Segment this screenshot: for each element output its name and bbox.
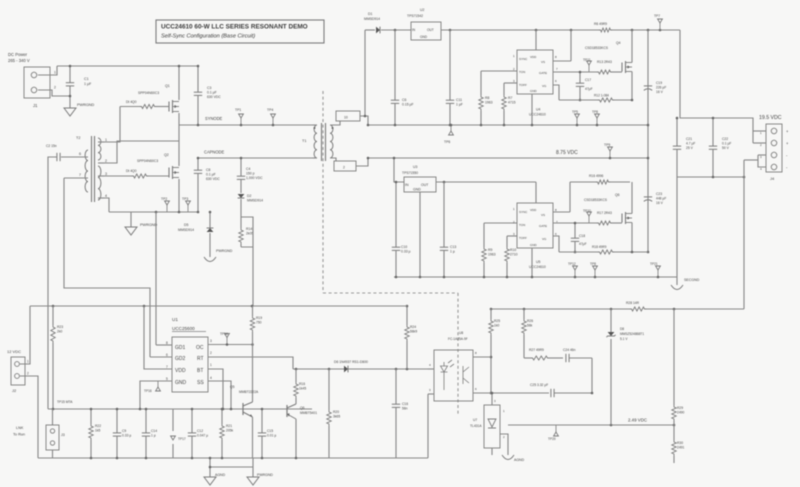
svg-text:TPS71542: TPS71542 bbox=[407, 14, 423, 18]
wire bbox=[295, 398, 297, 404]
junction bbox=[230, 408, 233, 411]
wire bbox=[98, 175, 104, 177]
wire bbox=[104, 175, 132, 177]
wire VS riser lower bbox=[569, 182, 571, 212]
wire Q6 drain bbox=[631, 182, 633, 214]
junction bbox=[197, 211, 200, 214]
wire bbox=[240, 217, 242, 228]
junction bbox=[240, 124, 243, 127]
svg-text:SECGND: SECGND bbox=[684, 278, 700, 282]
svg-text:VG: VG bbox=[542, 84, 547, 88]
svg-text:R16: R16 bbox=[299, 382, 305, 386]
wire bbox=[313, 157, 317, 159]
svg-text:U8: U8 bbox=[459, 331, 463, 335]
svg-text:C15: C15 bbox=[267, 429, 273, 433]
junction bbox=[395, 181, 398, 184]
svg-text:J1: J1 bbox=[33, 103, 38, 108]
svg-text:R28 14R: R28 14R bbox=[626, 301, 640, 305]
wire bbox=[610, 181, 630, 183]
wire Q1 drain bbox=[178, 66, 180, 100]
svg-text:TP15 MTA: TP15 MTA bbox=[57, 400, 73, 404]
svg-text:448 µF: 448 µF bbox=[656, 197, 666, 201]
svg-text:150 p: 150 p bbox=[246, 172, 255, 176]
connector pin bbox=[771, 140, 777, 146]
wire Q2 drain from SYNODE bbox=[178, 125, 180, 166]
svg-text:16 V: 16 V bbox=[656, 90, 664, 94]
svg-text:Q4: Q4 bbox=[616, 41, 621, 45]
svg-text:GATE: GATE bbox=[539, 224, 547, 228]
svg-text:U3: U3 bbox=[413, 165, 417, 169]
wire J2 to 12V rail bbox=[20, 306, 30, 364]
svg-text:GND: GND bbox=[420, 35, 428, 39]
svg-text:TL431A: TL431A bbox=[470, 424, 482, 428]
wire bbox=[197, 174, 199, 213]
junction bbox=[406, 305, 409, 308]
wire Q4 source bbox=[631, 72, 633, 101]
wire bbox=[221, 440, 223, 458]
test point TP10 bbox=[588, 216, 590, 223]
wire bbox=[252, 458, 254, 467]
svg-text:0.01 µ: 0.01 µ bbox=[267, 434, 276, 438]
junction bbox=[139, 408, 142, 411]
svg-text:TOFF: TOFF bbox=[519, 236, 527, 240]
wire bbox=[612, 71, 622, 73]
junction bbox=[178, 211, 181, 214]
svg-text:TPS71550: TPS71550 bbox=[402, 171, 418, 175]
wire bbox=[712, 118, 714, 146]
svg-text:R13 2R43: R13 2R43 bbox=[597, 60, 612, 64]
wire 5V rail lower bbox=[436, 181, 536, 183]
wire bbox=[116, 409, 118, 433]
svg-text:PWRGND: PWRGND bbox=[257, 473, 273, 477]
wire bbox=[491, 392, 549, 394]
junction bbox=[314, 127, 316, 129]
svg-text:D2: D2 bbox=[247, 194, 251, 198]
svg-text:3: 3 bbox=[210, 339, 212, 343]
svg-text:C9: C9 bbox=[122, 429, 126, 433]
svg-text:VDD: VDD bbox=[530, 208, 537, 212]
wire output cap column bbox=[647, 30, 649, 252]
svg-text:GND: GND bbox=[175, 380, 187, 386]
capacitor C23 bbox=[644, 196, 652, 198]
wire bbox=[428, 393, 434, 395]
svg-text:GND: GND bbox=[413, 188, 421, 192]
svg-text:C21: C21 bbox=[686, 137, 692, 141]
svg-text:TP11: TP11 bbox=[583, 58, 591, 62]
wire SS down bbox=[208, 381, 231, 409]
wire U5 GND down bbox=[531, 248, 533, 277]
wire bbox=[612, 222, 622, 224]
wire bbox=[323, 292, 458, 294]
svg-text:SYNC: SYNC bbox=[519, 210, 528, 214]
svg-text:2: 2 bbox=[343, 166, 345, 170]
junction bbox=[490, 356, 493, 359]
wire bbox=[712, 150, 714, 178]
ground PWRGND input bbox=[64, 108, 76, 116]
wire bbox=[360, 116, 368, 125]
svg-text:R20: R20 bbox=[333, 410, 339, 414]
wire bbox=[395, 182, 397, 247]
svg-text:PWRGND: PWRGND bbox=[77, 103, 95, 107]
svg-text:TP16: TP16 bbox=[144, 389, 152, 393]
wire bbox=[243, 402, 253, 406]
junction bbox=[226, 343, 229, 346]
svg-text:IN: IN bbox=[405, 183, 409, 187]
junction bbox=[596, 124, 599, 127]
wire bbox=[443, 182, 445, 247]
svg-text:MMSD914: MMSD914 bbox=[247, 199, 263, 203]
wire bbox=[503, 83, 505, 95]
svg-text:TP12: TP12 bbox=[568, 262, 576, 266]
svg-text:1 µF: 1 µF bbox=[84, 82, 92, 86]
junction bbox=[251, 343, 254, 346]
wire secondary bottom rail 8.75VDC bbox=[368, 157, 648, 159]
diode D1 bbox=[376, 27, 380, 34]
junction bbox=[523, 308, 526, 311]
svg-text:C16: C16 bbox=[402, 402, 408, 406]
wire C2 down to bias rail bbox=[48, 157, 57, 409]
test point TP16 bbox=[157, 381, 159, 387]
svg-text:3: 3 bbox=[105, 172, 107, 176]
wire bbox=[240, 244, 242, 247]
junction bbox=[261, 457, 264, 460]
wire TL431 cathode bbox=[500, 434, 508, 455]
svg-text:SYNC: SYNC bbox=[519, 57, 528, 61]
wire bbox=[98, 141, 104, 143]
wire U4 VDD bbox=[535, 30, 537, 50]
wire bbox=[758, 154, 766, 156]
svg-text:3k65: 3k65 bbox=[333, 415, 340, 419]
svg-text:TP8: TP8 bbox=[592, 110, 598, 114]
resistor R13 bbox=[597, 70, 612, 74]
wire bbox=[313, 124, 317, 126]
wire bbox=[406, 341, 408, 369]
svg-text:AGND: AGND bbox=[514, 458, 525, 462]
svg-text:C14: C14 bbox=[151, 429, 157, 433]
svg-text:1k45: 1k45 bbox=[299, 387, 306, 391]
wire secondary return rail bbox=[394, 276, 677, 278]
junction bbox=[480, 124, 483, 127]
wire Q1 source to SYNODE bbox=[178, 113, 180, 125]
junction bbox=[449, 124, 452, 127]
svg-text:750: 750 bbox=[256, 321, 262, 325]
wire VDD riser bbox=[144, 306, 172, 369]
svg-text:0.33 µ: 0.33 µ bbox=[122, 434, 131, 438]
svg-text:1: 1 bbox=[210, 363, 212, 367]
junction bbox=[221, 408, 224, 411]
junction bbox=[419, 276, 422, 279]
svg-text:8: 8 bbox=[166, 341, 168, 345]
svg-text:Dt 4Q0: Dt 4Q0 bbox=[126, 169, 137, 173]
junction bbox=[222, 408, 225, 411]
svg-text:R8: R8 bbox=[485, 96, 489, 100]
test point TP6 bbox=[450, 125, 452, 131]
ground PWRGND sense bbox=[204, 257, 216, 262]
wire bbox=[252, 332, 254, 345]
wire bias mid rail bbox=[48, 408, 312, 410]
junction bbox=[145, 457, 148, 460]
wire to SECGND bbox=[676, 177, 678, 277]
svg-text:1963: 1963 bbox=[485, 101, 493, 105]
wire bbox=[240, 199, 242, 217]
wire Q4 drain bbox=[631, 30, 633, 63]
wire 6V rail upper bbox=[441, 29, 599, 31]
wire drain rail lower bbox=[570, 181, 596, 183]
wire J4 sense tap bbox=[744, 159, 758, 161]
junction bbox=[155, 211, 158, 214]
test point TP8 bbox=[596, 118, 598, 125]
svg-text:SYNODE: SYNODE bbox=[205, 116, 223, 121]
svg-text:0.33 µ: 0.33 µ bbox=[401, 250, 411, 254]
svg-text:4.7 µF: 4.7 µF bbox=[686, 142, 695, 146]
svg-text:1,000 VDC: 1,000 VDC bbox=[246, 176, 263, 180]
junction bbox=[251, 305, 254, 308]
wire bbox=[481, 70, 517, 72]
resistor R6 bbox=[599, 28, 612, 32]
junction bbox=[631, 251, 634, 254]
wire bbox=[69, 86, 71, 108]
wire bbox=[240, 158, 242, 176]
svg-text:TP2: TP2 bbox=[161, 197, 167, 201]
wire bbox=[680, 30, 753, 143]
resistor R17 bbox=[597, 221, 612, 225]
wire sense loop bbox=[241, 217, 253, 247]
svg-text:R29: R29 bbox=[677, 406, 683, 410]
wire source return upper bbox=[559, 99, 598, 101]
wire bbox=[574, 223, 576, 238]
wire opto collector bbox=[473, 356, 491, 358]
wire bbox=[52, 450, 54, 458]
wire bbox=[614, 251, 648, 253]
test point TP8b bbox=[594, 270, 596, 277]
wire bbox=[287, 404, 296, 408]
svg-text:265 - 340 V: 265 - 340 V bbox=[8, 58, 30, 63]
svg-text:1k0: 1k0 bbox=[494, 324, 499, 328]
wire J1 pin1 to input rail bbox=[38, 66, 57, 75]
svg-text:PWRGND: PWRGND bbox=[140, 223, 158, 227]
svg-text:5: 5 bbox=[166, 377, 168, 381]
wire secondary top rail bbox=[368, 124, 648, 126]
wire bbox=[242, 403, 244, 415]
wire J1 pin2 to ground bbox=[38, 90, 70, 96]
svg-text:OUT: OUT bbox=[421, 183, 429, 187]
svg-text:TOFF: TOFF bbox=[519, 83, 527, 87]
wire bbox=[252, 306, 254, 316]
test point TP5 bbox=[576, 118, 578, 125]
wire RT to aux bbox=[208, 357, 293, 369]
wire bbox=[555, 392, 593, 394]
optocoupler U8 bbox=[434, 350, 473, 401]
wire bbox=[221, 409, 223, 424]
wire bbox=[209, 212, 211, 228]
svg-text:R6 49R9: R6 49R9 bbox=[594, 22, 607, 26]
capacitor C24 bbox=[565, 354, 567, 362]
svg-text:0.1 µF: 0.1 µF bbox=[206, 173, 216, 177]
svg-text:RT: RT bbox=[197, 356, 204, 362]
svg-text:SS: SS bbox=[197, 380, 204, 386]
svg-text:2k0: 2k0 bbox=[57, 330, 62, 334]
wire bbox=[286, 405, 288, 417]
junction bbox=[570, 29, 573, 32]
junction bbox=[506, 276, 509, 279]
wire bbox=[673, 425, 675, 440]
svg-text:VS: VS bbox=[541, 213, 545, 217]
svg-text:2k05: 2k05 bbox=[246, 232, 253, 236]
wire 12V rail bbox=[30, 305, 407, 307]
svg-text:D8: D8 bbox=[620, 327, 624, 331]
wire to D1 anode bbox=[365, 29, 375, 31]
wire bbox=[356, 158, 368, 166]
junction bbox=[712, 176, 715, 179]
svg-text:1: 1 bbox=[54, 71, 56, 75]
wire bbox=[252, 345, 254, 403]
junction bbox=[367, 124, 370, 127]
wire input HV rail bbox=[57, 65, 198, 67]
svg-text:205k: 205k bbox=[226, 429, 234, 433]
wire bbox=[428, 368, 434, 370]
wire output minus bbox=[677, 176, 744, 178]
wire bbox=[381, 29, 411, 31]
wire bbox=[322, 91, 324, 293]
junction bbox=[209, 466, 212, 469]
wire bbox=[395, 408, 397, 459]
wire bbox=[394, 30, 396, 100]
wire T2 pin7 bbox=[64, 177, 88, 179]
svg-text:T1: T1 bbox=[302, 139, 306, 143]
junction bbox=[712, 117, 715, 120]
wire GD1 riser bbox=[155, 212, 157, 345]
wire U5 gate out bbox=[553, 222, 597, 224]
svg-text:VDD: VDD bbox=[175, 368, 186, 374]
test point TP12 bbox=[574, 270, 576, 277]
junction bbox=[295, 368, 298, 371]
svg-text:D1: D1 bbox=[368, 12, 372, 16]
svg-text:C11: C11 bbox=[456, 98, 462, 102]
svg-text:56n: 56n bbox=[402, 407, 408, 411]
junction bbox=[647, 124, 650, 127]
wire Q6 source bbox=[631, 223, 633, 253]
wire GD2 bbox=[150, 356, 172, 358]
wire bbox=[328, 369, 330, 410]
wire T2 pin6 bbox=[61, 156, 88, 158]
test point TP3 bbox=[187, 205, 189, 212]
svg-text:R25: R25 bbox=[494, 319, 500, 323]
junction bbox=[647, 251, 650, 254]
junction bbox=[332, 127, 334, 129]
junction bbox=[609, 157, 612, 160]
svg-text:C19: C19 bbox=[656, 81, 662, 85]
junction bbox=[197, 65, 200, 68]
wire feedback rail bbox=[491, 308, 630, 310]
connector pin bbox=[31, 72, 37, 78]
wire bbox=[673, 309, 675, 405]
svg-text:10: 10 bbox=[344, 116, 348, 120]
wire bbox=[295, 369, 297, 382]
wire bbox=[120, 106, 140, 108]
wire opto LED return bbox=[427, 394, 429, 458]
svg-text:0.15 µF: 0.15 µF bbox=[402, 103, 414, 107]
connector pin bbox=[771, 128, 777, 134]
svg-text:4: 4 bbox=[105, 194, 107, 198]
junction bbox=[52, 305, 55, 308]
svg-text:R21: R21 bbox=[226, 424, 232, 428]
svg-text:TP3: TP3 bbox=[182, 197, 188, 201]
connector pin bbox=[15, 362, 20, 367]
svg-text:UCC25600: UCC25600 bbox=[172, 326, 195, 331]
wire T2 pin1 to Q1 gate bbox=[104, 107, 120, 143]
svg-text:Q2: Q2 bbox=[164, 153, 169, 157]
svg-text:12 VDC: 12 VDC bbox=[7, 349, 21, 354]
svg-text:J3: J3 bbox=[61, 433, 65, 437]
wire bbox=[91, 136, 93, 202]
wire GND down bbox=[140, 381, 172, 409]
junction bbox=[490, 392, 493, 395]
svg-text:2: 2 bbox=[105, 159, 107, 163]
connector pin bbox=[15, 374, 20, 379]
junction bbox=[659, 29, 662, 32]
junction bbox=[591, 392, 594, 395]
svg-text:C12: C12 bbox=[197, 429, 203, 433]
wire bbox=[574, 242, 576, 253]
shunt reg U7 TL431 bbox=[484, 405, 500, 448]
svg-text:TP9: TP9 bbox=[604, 143, 610, 147]
svg-text:4: 4 bbox=[210, 376, 212, 380]
wire feedback riser bbox=[743, 160, 745, 309]
svg-text:C4: C4 bbox=[246, 167, 250, 171]
wire bbox=[676, 277, 678, 285]
svg-text:CSD18533KCS: CSD18533KCS bbox=[585, 46, 609, 50]
junction bbox=[367, 157, 370, 160]
svg-text:5.1 V: 5.1 V bbox=[620, 337, 628, 341]
junction bbox=[531, 276, 534, 279]
wire bbox=[52, 343, 54, 409]
wire bbox=[507, 235, 517, 237]
svg-text:R9: R9 bbox=[488, 248, 492, 252]
svg-text:TP6: TP6 bbox=[444, 140, 450, 144]
junction bbox=[574, 222, 577, 225]
IC U4 UCC24610 bbox=[517, 50, 553, 94]
wire bbox=[209, 458, 211, 467]
wire bbox=[330, 121, 340, 125]
wire primary return bbox=[109, 211, 198, 213]
svg-text:1 µF: 1 µF bbox=[456, 103, 463, 107]
junction bbox=[647, 29, 650, 32]
svg-text:CSD18533KCS: CSD18533KCS bbox=[584, 198, 608, 202]
wire bbox=[490, 309, 492, 319]
junction bbox=[143, 305, 146, 308]
test point TP20 bbox=[555, 425, 557, 432]
svg-text:GND: GND bbox=[530, 89, 538, 93]
test point TP4 bbox=[272, 118, 274, 125]
ground PWRGND low bbox=[247, 477, 259, 485]
junction bbox=[631, 29, 634, 32]
wire bbox=[90, 440, 92, 458]
wire bbox=[148, 175, 169, 177]
svg-text:UCC24610 60-W LLC SERIES RESON: UCC24610 60-W LLC SERIES RESONANT DEMO bbox=[161, 24, 308, 31]
svg-text:C17: C17 bbox=[585, 78, 591, 82]
junction bbox=[647, 157, 650, 160]
junction bbox=[145, 408, 148, 411]
wire bbox=[240, 180, 242, 194]
wire bbox=[610, 309, 612, 332]
wire bbox=[330, 158, 336, 161]
underline bbox=[172, 331, 206, 333]
svg-text:OUT: OUT bbox=[427, 28, 434, 32]
svg-text:R30: R30 bbox=[677, 441, 683, 445]
svg-text:C10: C10 bbox=[401, 245, 407, 249]
wire bbox=[676, 118, 678, 146]
svg-text:T2: T2 bbox=[76, 136, 80, 140]
